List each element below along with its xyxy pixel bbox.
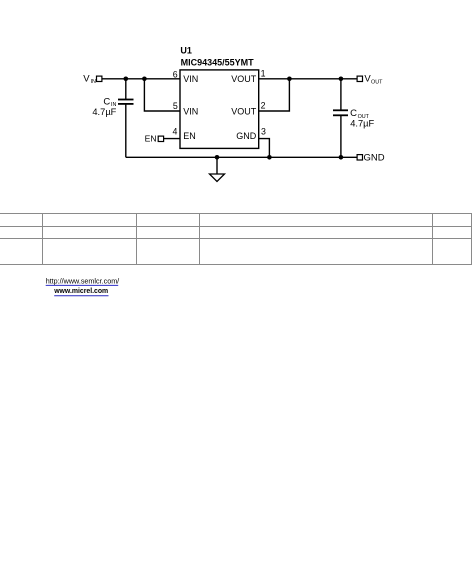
node junction dot ground stem bbox=[215, 155, 220, 160]
capacitor COUT 4.7uF bbox=[333, 79, 374, 158]
svg-text:GND: GND bbox=[364, 153, 385, 164]
svg-text:3: 3 bbox=[261, 127, 266, 137]
svg-text:U1: U1 bbox=[180, 45, 192, 55]
svg-text:OUT: OUT bbox=[371, 79, 383, 85]
link micrel bbox=[53, 286, 108, 296]
node junction dot pin2 net bbox=[287, 77, 292, 82]
wire pin 1 to VOUT terminal bbox=[259, 78, 357, 80]
pin 2 number bbox=[261, 100, 266, 110]
node junction dot pin3 on rail bbox=[267, 155, 272, 160]
svg-text:VIN: VIN bbox=[183, 107, 198, 117]
pin 6 number bbox=[173, 69, 178, 79]
pin 4 number bbox=[172, 126, 177, 136]
terminal VIN bbox=[83, 73, 102, 85]
wire EN terminal to pin 4 bbox=[164, 138, 180, 140]
svg-text:C: C bbox=[103, 96, 110, 107]
wire pin 5 branch bbox=[144, 79, 180, 111]
svg-text:IN: IN bbox=[91, 79, 96, 85]
svg-text:4: 4 bbox=[172, 126, 177, 136]
wire pin 3 down to ground rail bbox=[259, 139, 270, 158]
svg-text:5: 5 bbox=[173, 101, 178, 111]
svg-text:6: 6 bbox=[173, 69, 178, 79]
table bbox=[0, 213, 472, 265]
svg-text:EN: EN bbox=[183, 131, 196, 141]
svg-text:V: V bbox=[83, 73, 90, 84]
pin 1 number bbox=[261, 68, 266, 78]
wire pin 2 up to pin1 net bbox=[259, 79, 290, 111]
terminal EN bbox=[145, 133, 164, 143]
svg-text:4.7µF: 4.7µF bbox=[350, 119, 374, 129]
link semlcr bbox=[46, 276, 120, 285]
svg-text:VOUT: VOUT bbox=[231, 107, 257, 117]
svg-text:C: C bbox=[350, 108, 357, 119]
svg-text:2: 2 bbox=[261, 100, 266, 110]
svg-text:EN: EN bbox=[145, 133, 157, 143]
wire VIN terminal to pin 6 bbox=[102, 78, 180, 80]
terminal VOUT bbox=[357, 74, 383, 86]
svg-text:VIN: VIN bbox=[183, 74, 198, 84]
pin 5 number bbox=[173, 101, 178, 111]
ground bbox=[210, 157, 225, 181]
node junction dot COUT bottom bbox=[339, 155, 344, 160]
capacitor CIN 4.7uF bbox=[92, 79, 133, 158]
node junction dot at CIN top bbox=[124, 77, 129, 82]
svg-text:www.micrel.com: www.micrel.com bbox=[53, 286, 108, 295]
svg-text:1: 1 bbox=[261, 68, 266, 78]
pin 3 number bbox=[261, 127, 266, 137]
node junction dot COUT top bbox=[339, 77, 344, 82]
wire ground rail bbox=[126, 156, 357, 158]
terminal GND bbox=[357, 153, 385, 164]
svg-text:VOUT: VOUT bbox=[231, 74, 257, 84]
op-amp U1 (IC body MIC94345/55YMT) bbox=[180, 45, 259, 148]
svg-text:GND: GND bbox=[236, 131, 257, 141]
svg-text:MIC94345/55YMT: MIC94345/55YMT bbox=[181, 58, 255, 68]
node junction dot at pin5 branch bbox=[142, 77, 147, 82]
svg-text:http://www.semlcr.com/: http://www.semlcr.com/ bbox=[46, 276, 120, 285]
svg-text:4.7µF: 4.7µF bbox=[92, 107, 116, 117]
